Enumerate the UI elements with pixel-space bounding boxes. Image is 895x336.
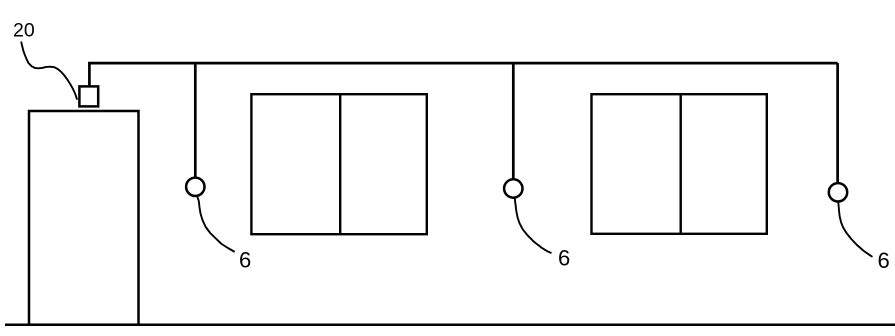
svg-text:6: 6 (239, 248, 251, 273)
wire: stub from bus down to box 20 (88, 63, 91, 86)
leader to label 6b (515, 199, 551, 253)
wire: drop 1 (194, 64, 197, 178)
detector 6b (circle) (504, 179, 522, 197)
svg-text:6: 6 (878, 248, 890, 273)
detector 6c (circle) (829, 183, 847, 201)
cabinet (tall rectangle at left) (29, 111, 139, 325)
wire: main horizontal bus (88, 62, 838, 65)
double door rectangle 2 (592, 94, 767, 234)
double door rectangle 1 (251, 94, 426, 234)
leader to label 6c (838, 202, 872, 256)
divider of rectangle 1 (339, 94, 341, 234)
divider of rectangle 2 (680, 94, 682, 234)
detector 6a (circle) (186, 178, 204, 196)
svg-text:20: 20 (13, 20, 35, 42)
ground line (5, 323, 895, 326)
wire: drop 3 (right end of bus) (836, 63, 839, 183)
svg-text:6: 6 (558, 246, 570, 271)
leader to label 6a (198, 198, 234, 252)
wire: drop 2 (512, 64, 515, 180)
box 20 (transmitter unit) (79, 86, 98, 106)
leader from label 20 to box 20 (21, 42, 77, 99)
